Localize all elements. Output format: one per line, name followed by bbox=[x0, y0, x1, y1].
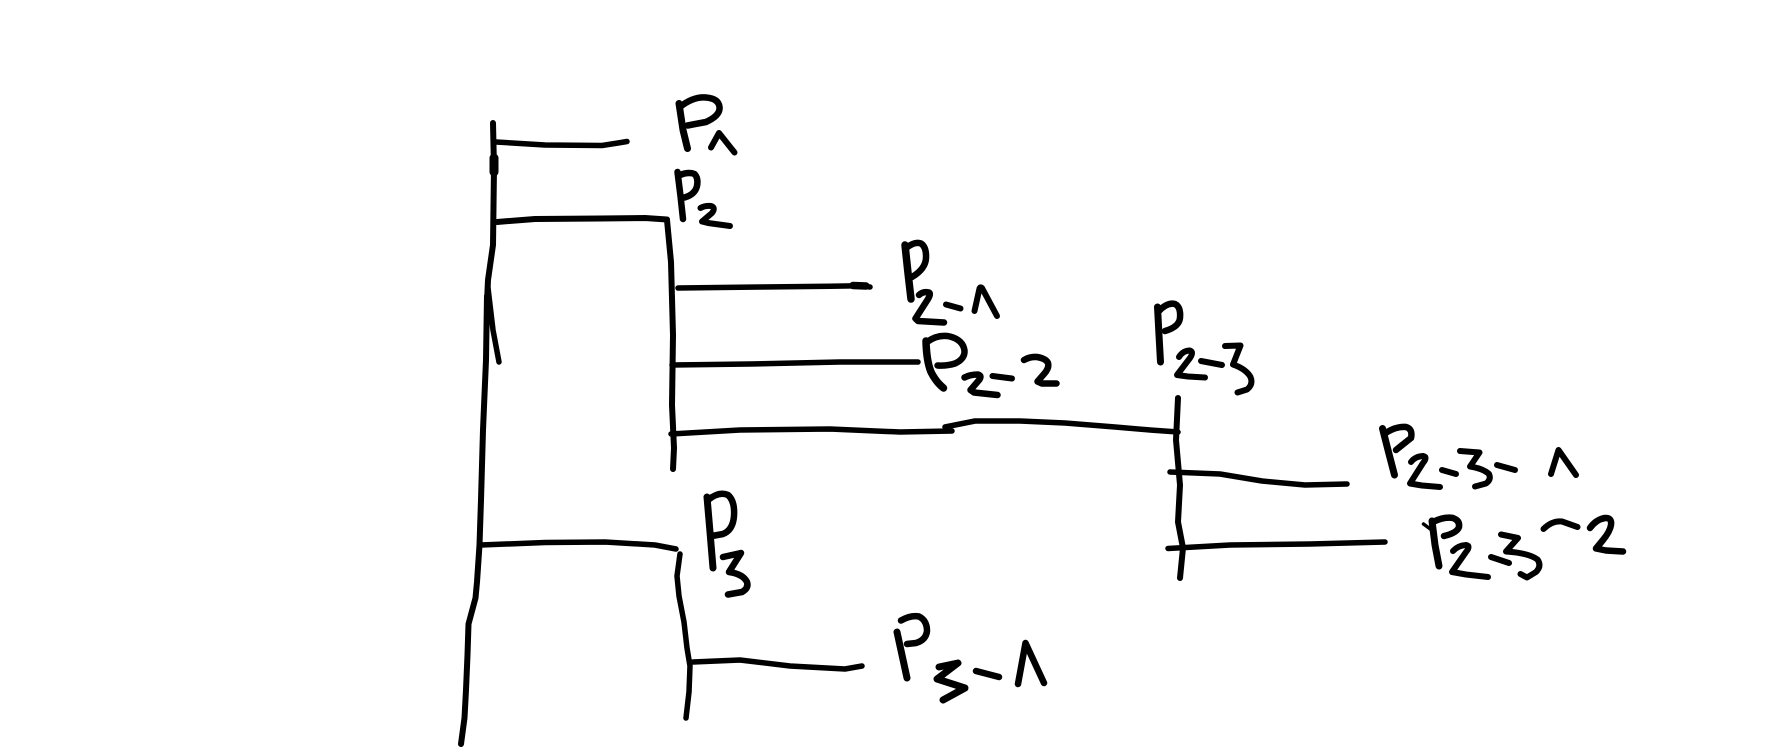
wire: P2-3 node vertical bbox=[1176, 398, 1183, 578]
wire: P3 node vertical bbox=[677, 554, 690, 718]
wire: branch P2-3-2 bbox=[1168, 542, 1385, 549]
wire: branch P1 bbox=[496, 142, 627, 146]
wire: branch P3-1 bbox=[693, 660, 862, 669]
label P2-3 bbox=[1158, 304, 1252, 393]
wire: branch P2 horizontal bbox=[497, 218, 667, 222]
wire: branch P2-1 end wedge bbox=[853, 282, 866, 290]
wire: branch P2-3 long horizontal part2 bbox=[945, 421, 1178, 432]
label P2-1 bbox=[905, 243, 997, 323]
wire: P2 node vertical bbox=[667, 220, 674, 469]
trunk overlap tail bbox=[488, 288, 499, 362]
trunk (main vertical line, lower segment) bbox=[461, 296, 487, 744]
trunk thick blob bbox=[490, 158, 499, 172]
trunk (main vertical line, upper segment) bbox=[487, 123, 494, 302]
label P2-3-1 bbox=[1383, 427, 1577, 487]
label P3 bbox=[707, 494, 747, 595]
wire: branch P3 horizontal bbox=[481, 542, 676, 549]
wire: branch P2-2 bbox=[672, 362, 918, 365]
label P2 bbox=[678, 172, 731, 226]
wire: branch P2-3 long horizontal bbox=[671, 429, 952, 434]
label P3-1 bbox=[897, 616, 1044, 700]
label P2-2 bbox=[926, 336, 1057, 395]
wire: branch P2-1 bbox=[678, 286, 870, 288]
label P2-3-2 bbox=[1424, 518, 1624, 578]
label P1 bbox=[679, 97, 735, 152]
wire: branch P2-3-1 bbox=[1170, 472, 1347, 485]
